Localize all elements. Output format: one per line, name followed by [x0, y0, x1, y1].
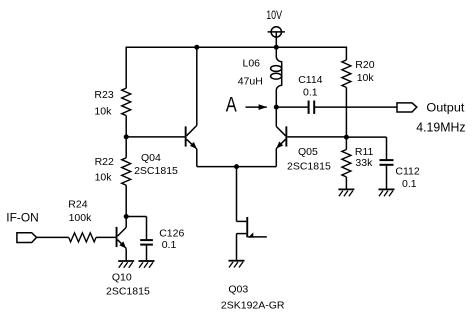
svg-text:R22: R22 — [95, 156, 114, 168]
svg-text:4.19MHz: 4.19MHz — [416, 120, 465, 134]
svg-text:10k: 10k — [94, 106, 112, 118]
svg-text:2SK192A-GR: 2SK192A-GR — [221, 299, 285, 311]
svg-text:C114: C114 — [298, 74, 322, 86]
svg-text:Output: Output — [426, 101, 465, 115]
svg-text:C112: C112 — [395, 166, 419, 178]
svg-text:IF-ON: IF-ON — [6, 211, 38, 225]
svg-text:0.1: 0.1 — [402, 178, 417, 190]
svg-text:Q05: Q05 — [298, 146, 318, 158]
svg-text:C126: C126 — [159, 227, 184, 239]
svg-text:Q10: Q10 — [112, 272, 132, 284]
svg-text:A: A — [226, 93, 237, 116]
svg-text:33k: 33k — [355, 157, 373, 169]
svg-text:10k: 10k — [95, 171, 113, 183]
svg-text:0.1: 0.1 — [303, 86, 318, 98]
svg-text:Q04: Q04 — [141, 152, 161, 164]
svg-text:100k: 100k — [69, 212, 93, 224]
svg-text:Q03: Q03 — [228, 283, 248, 295]
svg-text:10k: 10k — [357, 72, 375, 84]
svg-text:R24: R24 — [68, 198, 87, 210]
svg-text:L06: L06 — [243, 57, 261, 69]
svg-text:R23: R23 — [94, 89, 113, 101]
svg-text:0.1: 0.1 — [162, 239, 177, 251]
svg-text:2SC1815: 2SC1815 — [134, 165, 178, 177]
svg-text:10V: 10V — [266, 10, 282, 22]
svg-text:2SC1815: 2SC1815 — [287, 161, 331, 173]
svg-text:47uH: 47uH — [238, 76, 263, 88]
svg-text:R20: R20 — [355, 59, 374, 71]
svg-text:2SC1815: 2SC1815 — [106, 286, 150, 298]
